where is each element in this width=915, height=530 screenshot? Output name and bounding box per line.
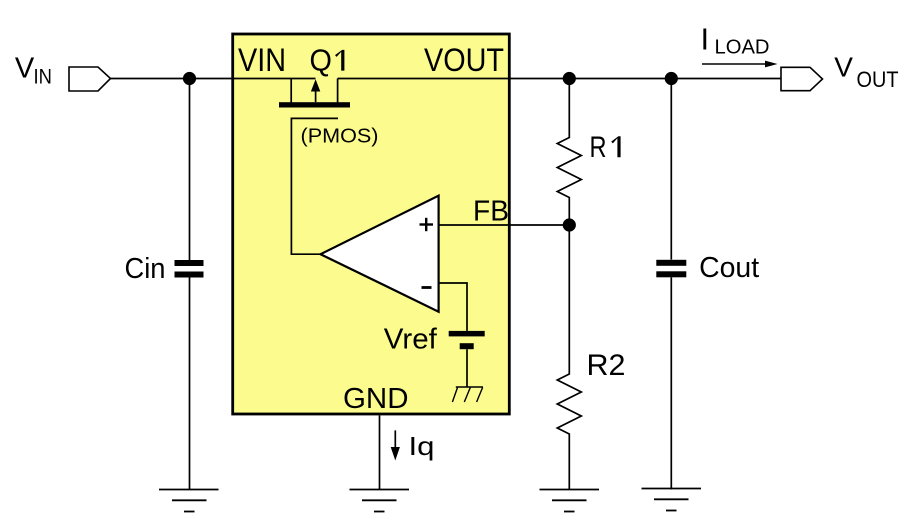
label VOUT terminal <box>834 52 898 92</box>
ground (GND pin) <box>350 490 410 512</box>
wire plus input to FB node <box>439 224 570 226</box>
svg-text:OUT: OUT <box>857 67 899 92</box>
node FB junction <box>563 218 576 231</box>
ground internal (hatched) <box>452 387 483 402</box>
reference Vref (battery) <box>449 331 485 349</box>
label Q1 <box>310 43 345 78</box>
svg-text:LOAD: LOAD <box>715 36 770 58</box>
svg-text:Cin: Cin <box>125 253 166 285</box>
op-amp minus input marker <box>422 286 432 289</box>
node input junction <box>183 72 196 85</box>
ground (R2) <box>540 490 600 512</box>
svg-text:GND: GND <box>343 383 409 415</box>
LDO regulator body U1 <box>233 34 510 414</box>
svg-text:VIN: VIN <box>238 42 286 78</box>
terminal VOUT connector <box>781 67 823 90</box>
wire minus input to Vref <box>439 283 467 331</box>
svg-text:FB: FB <box>473 195 509 227</box>
terminal VIN connector <box>69 67 111 91</box>
wire Cout branch <box>670 79 672 490</box>
wire Vref to internal ground <box>466 349 468 387</box>
svg-text:Vref: Vref <box>384 324 438 356</box>
ground (Cout) <box>642 489 702 511</box>
wire VOUT rail <box>338 78 781 80</box>
wire Cin branch <box>189 79 191 490</box>
svg-text:V: V <box>834 52 853 83</box>
svg-text:(PMOS): (PMOS) <box>301 125 379 148</box>
svg-text:Q: Q <box>310 43 332 78</box>
svg-text:Iq: Iq <box>409 431 435 461</box>
label R1 <box>590 131 621 164</box>
capacitor Cout <box>656 260 686 278</box>
svg-text:IN: IN <box>34 66 52 89</box>
node VOUT junction 1 <box>563 72 576 85</box>
wire GND pin <box>379 415 381 489</box>
svg-text:V: V <box>15 53 35 85</box>
wire gate to error amp output <box>291 118 338 254</box>
svg-text:VOUT: VOUT <box>424 42 504 78</box>
transistor Q1 (PMOS pass element) <box>279 79 350 108</box>
ground (Cin) <box>159 490 219 512</box>
current arrow ILOAD <box>702 61 778 68</box>
op-amp U2 error amplifier <box>321 196 439 312</box>
svg-text:I: I <box>701 22 710 57</box>
svg-text:R: R <box>590 131 607 164</box>
resistor R1 <box>557 79 581 226</box>
resistor R2 <box>557 225 581 490</box>
op-amp plus input marker <box>420 218 434 231</box>
svg-text:R2: R2 <box>587 349 626 382</box>
wire VIN rail <box>111 78 316 80</box>
Iq current arrow <box>391 430 400 460</box>
svg-text:Cout: Cout <box>699 252 759 284</box>
capacitor Cin <box>175 260 204 278</box>
label VIN terminal <box>15 53 52 89</box>
label ILOAD <box>701 22 770 59</box>
node VOUT junction 2 <box>665 72 678 85</box>
